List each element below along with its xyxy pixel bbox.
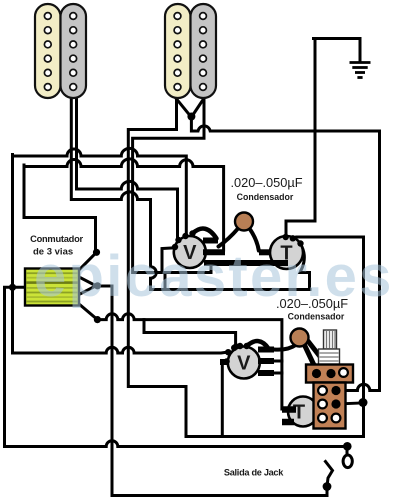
- svg-text:Salida de Jack: Salida de Jack: [224, 468, 284, 478]
- svg-text:Condensador: Condensador: [288, 312, 345, 322]
- svg-text:epicaster.es: epicaster.es: [34, 244, 394, 309]
- svg-text:Conmutador: Conmutador: [30, 234, 83, 244]
- svg-text:Condensador: Condensador: [237, 192, 294, 202]
- svg-text:.020–.050µF: .020–.050µF: [230, 175, 302, 190]
- svg-text:V: V: [237, 353, 251, 375]
